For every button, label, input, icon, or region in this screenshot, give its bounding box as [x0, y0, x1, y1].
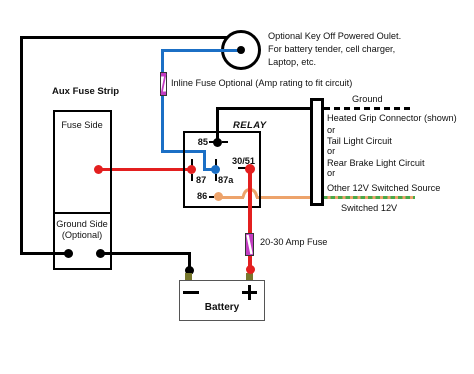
- pin 87a contact dot (blue): [211, 165, 220, 174]
- terminal: battery negative post (olive): [185, 273, 192, 281]
- fuse F1: inline fuse symbol on blue wire: [160, 72, 167, 96]
- wire: red from aux fuse strip to pin 87: [97, 168, 192, 171]
- label: RELAY: [233, 120, 267, 131]
- wire: ground side to battery negative, horizontal: [100, 252, 190, 255]
- wire: orange hop over red wire: [242, 188, 258, 198]
- pin 86 tick: [209, 196, 214, 198]
- component: relay box: [183, 131, 261, 208]
- wire: orange from hop to connector: [256, 196, 310, 199]
- pin 30/51 contact dot (red): [245, 164, 255, 174]
- wire: blue horizontal jog: [161, 150, 206, 153]
- label: Ground Side (Optional): [53, 219, 111, 241]
- label: 20-30 Amp Fuse: [260, 237, 327, 248]
- label: Optional Key Off Powered Oulet text block: [268, 30, 401, 69]
- wire: ground wire into aux strip ground side: [20, 252, 68, 255]
- pin 87 tick lower: [191, 174, 193, 181]
- pin 85 tick right: [222, 141, 228, 143]
- label: Fuse Side: [53, 120, 111, 131]
- divider line between fuse side and ground side: [53, 212, 112, 214]
- battery negative symbol: [183, 291, 199, 294]
- pin 87 tick upper: [191, 159, 193, 166]
- pin 85 contact dot: [213, 138, 222, 147]
- node: ground side terminal dot 1: [64, 249, 73, 258]
- node: battery negative wire dot: [185, 266, 194, 275]
- wire: blue horizontal to outlet center: [161, 49, 242, 52]
- wire: green/orange dashed switched 12V line: [323, 196, 415, 199]
- wire: relay pin 85 riser vertical black: [216, 107, 219, 145]
- label: Battery: [179, 302, 265, 313]
- node: ground side terminal dot 2: [96, 249, 105, 258]
- wire: red vertical battery feed from pin 30/51: [248, 168, 252, 270]
- pin 87a tick lower: [215, 174, 217, 181]
- wire: ground wire left vertical: [20, 36, 23, 255]
- label: Ground: [352, 94, 383, 105]
- pin 87 contact dot (red): [187, 165, 196, 174]
- wire: ground wire from outlet shell, top horizontal: [20, 36, 227, 39]
- pin 30/51 tick: [238, 167, 246, 169]
- pin 86 label: [197, 191, 207, 202]
- fuse F2: 20-30 Amp fuse on battery feed: [245, 233, 254, 256]
- component: aux fuse strip box: [53, 110, 112, 270]
- wire: blue into pin 87a: [203, 168, 216, 171]
- node: outlet circle (Key Off powered outlet): [221, 30, 261, 70]
- pin 85 label: [193, 137, 208, 148]
- wire: ground side to battery negative, vertical: [188, 252, 191, 271]
- pin 87 label: [196, 175, 206, 186]
- label: switched source options column: [327, 113, 457, 124]
- pin 87a label: [218, 175, 233, 186]
- pin 30/51 label: [232, 156, 255, 167]
- wire: blue vertical through inline fuse: [161, 49, 164, 153]
- wire: blue vertical jog down: [203, 150, 206, 168]
- component: battery box: [179, 280, 265, 321]
- component: heated grip connector rectangle: [310, 98, 324, 206]
- node: aux strip fused output dot (red): [94, 165, 103, 174]
- label: Aux Fuse Strip: [52, 86, 119, 97]
- pin 87a tick upper: [215, 159, 217, 166]
- pin 86 contact dot (orange): [214, 192, 223, 201]
- label: Switched 12V: [341, 203, 397, 214]
- battery positive symbol vertical: [248, 285, 251, 300]
- wire: orange from pin 86 to hop: [218, 196, 244, 199]
- terminal: battery positive post (olive): [246, 273, 253, 281]
- node: battery positive wire dot (red): [246, 265, 255, 274]
- pin 85 tick: [209, 141, 214, 143]
- wire: relay pin 85 to connector, horizontal black: [216, 107, 311, 110]
- battery positive symbol horizontal: [242, 291, 257, 294]
- label: Inline Fuse Optional: [171, 78, 352, 89]
- wire: dashed ground line right of connector: [324, 107, 414, 110]
- node: outlet center contact dot: [237, 46, 245, 54]
